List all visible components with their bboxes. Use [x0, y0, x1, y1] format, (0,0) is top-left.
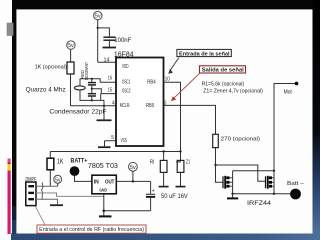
svg-text:10: 10 — [165, 77, 170, 83]
wire rail RB4 R1 Z1 — [50, 151, 180, 153]
ground (crystal) — [97, 119, 112, 121]
svg-text:Condensador 22pF: Condensador 22pF — [49, 109, 106, 116]
capacitor 50uF plate bottom — [146, 196, 155, 198]
svg-text:RI: RI — [150, 160, 155, 166]
pencil marker bar: dark notch — [8, 163, 11, 165]
left black bar — [12, 0, 16, 206]
terminal Mot — [295, 82, 299, 86]
resistor 1K — [47, 158, 54, 170]
svg-text:50 uF 16V: 50 uF 16V — [161, 194, 188, 200]
node Z1 — [179, 150, 181, 152]
svg-text:RB4: RB4 — [147, 80, 156, 86]
connector pin 3 — [28, 198, 34, 200]
top black band — [12, 0, 320, 9]
wire node to C1 — [91, 79, 93, 83]
node VDD tap — [97, 27, 99, 29]
resistor 270 (opcional) — [213, 134, 219, 147]
callout Entrada de la senal — [177, 49, 231, 57]
wire 270 to gate node — [215, 148, 217, 165]
svg-text:MCLR-: MCLR- — [120, 103, 131, 109]
node drain bus — [273, 170, 275, 172]
ground (100nF) — [103, 47, 117, 49]
wire crystal bottom frame — [80, 90, 104, 101]
svg-text:VSS: VSS — [121, 138, 127, 144]
svg-text:4: 4 — [112, 100, 115, 106]
svg-text:5: 5 — [111, 135, 114, 141]
svg-text:100nF: 100nF — [114, 37, 131, 44]
terminal BATT+ — [70, 166, 80, 176]
svg-text:Entrada a el control de RF (ra: Entrada a el control de RF (radio frecue… — [39, 227, 144, 233]
svg-text:RB0: RB0 — [146, 103, 154, 109]
svg-text:BATT+: BATT+ — [71, 159, 88, 165]
svg-text:Z1= Zener 4,7v (opcional): Z1= Zener 4,7v (opcional) — [203, 89, 263, 95]
svg-text:5v: 5v — [55, 177, 61, 183]
arrowhead pin 6 — [171, 96, 176, 101]
right black-to-blue band — [313, 0, 320, 240]
resistor 1K (opcional) — [67, 62, 74, 74]
wire to 100nF — [98, 28, 110, 37]
node source Q1 — [231, 193, 233, 195]
svg-text:1K (opcional): 1K (opcional) — [35, 64, 67, 70]
wire source rail — [233, 193, 293, 195]
arrow to pin 10 — [170, 58, 179, 71]
node source Q2 — [273, 193, 275, 195]
wire 5v to OUT rail — [132, 171, 134, 181]
ground (Z1) — [176, 186, 186, 188]
ground (R1) — [159, 186, 169, 188]
wire mid node to C2 — [91, 89, 93, 94]
wire GND stub down — [103, 211, 105, 216]
ground (connector) — [50, 204, 63, 206]
wire hop squiggle — [42, 183, 43, 200]
wire crystal top to OSC1 frame — [80, 79, 116, 86]
wire pull-up to MCLR — [71, 74, 116, 106]
wire RB4 pin 10 — [164, 82, 181, 151]
svg-text:5v: 5v — [130, 165, 136, 171]
wire jog to pin 15 line — [100, 94, 102, 101]
svg-text:16F84: 16F84 — [114, 50, 134, 59]
wire RB0 pin 6 — [164, 105, 216, 134]
pointer line to RF label — [35, 206, 45, 225]
capacitor C1 22pF — [88, 83, 96, 85]
svg-text:IRFZ44: IRFZ44 — [247, 200, 271, 207]
terminal Batt- — [290, 189, 301, 200]
callout Salida de senal — [200, 66, 246, 74]
svg-text:OSC1: OSC1 — [122, 79, 131, 85]
resistor R1 — [160, 160, 167, 172]
wire GND rail to cap — [104, 210, 151, 212]
gray tab on left bar — [7, 23, 13, 36]
svg-text:DMPF: DMPF — [26, 177, 37, 183]
ground (regulator) — [99, 215, 112, 217]
capacitor C2 22pF — [88, 94, 96, 96]
ground (Q1) — [227, 197, 238, 199]
arrowhead pin 10 — [168, 69, 173, 74]
transistor Q1 IRFZ44 — [223, 171, 233, 194]
wire 100nF to ground — [108, 40, 110, 47]
node OUT — [132, 180, 134, 182]
wire VDD stub pin14 — [98, 61, 116, 63]
pencil marker bar: pink tip — [8, 159, 11, 163]
svg-text:15: 15 — [108, 87, 112, 93]
svg-text:Batt –: Batt – — [287, 181, 305, 187]
wire pin2 to regulator gnd — [36, 193, 104, 196]
wire gate rail to mosfet2 — [216, 165, 266, 181]
wire bottom frame to ground — [103, 100, 105, 119]
svg-text:GND: GND — [99, 187, 107, 193]
svg-text:Entrada de la señal: Entrada de la señal — [179, 51, 230, 57]
regulator 7805 T03 — [92, 175, 116, 194]
wire cap to gnd rail — [150, 198, 152, 211]
node OSC1 — [91, 78, 93, 80]
svg-text:14: 14 — [104, 57, 110, 63]
connector pin 2 — [28, 192, 34, 194]
wire mid node to OSC2 pin 15 — [92, 89, 116, 94]
svg-text:OSC2: OSC2 — [122, 88, 131, 94]
wire VDD vertical — [97, 20, 99, 63]
svg-text:IN: IN — [94, 179, 99, 185]
svg-text:Salida de señal: Salida de señal — [202, 68, 244, 74]
wire pin1 to node — [36, 185, 58, 187]
wire gate rail to mosfet1 — [216, 165, 224, 182]
svg-text:Z1: Z1 — [186, 160, 190, 166]
svg-text:R1=5,6k (opcional): R1=5,6k (opcional) — [202, 81, 245, 87]
wire BATT+ to regulator IN — [75, 176, 92, 182]
wire OUT to cap — [150, 181, 152, 193]
5v supply symbol (regulator out) — [129, 162, 138, 171]
wire drain bus — [233, 170, 274, 172]
5v supply symbol (connector) — [54, 175, 62, 183]
wire Mot line — [274, 84, 297, 171]
wire rail to Z1 — [180, 152, 182, 161]
wire 1K down to node — [49, 170, 51, 186]
svg-text:Mot: Mot — [284, 89, 293, 95]
node crystal bottom — [91, 99, 93, 101]
bottom blue band — [11, 234, 320, 240]
wire R1 to ground — [163, 172, 165, 186]
wire pin3 to ground — [36, 199, 58, 204]
pencil marker bar: yellow segment — [8, 164, 11, 171]
ground (VSS) — [98, 146, 111, 148]
wire VSS pin 5 — [105, 141, 116, 147]
wire Z1 to ground — [180, 172, 182, 186]
svg-text:Quarzo 4 Mhz: Quarzo 4 Mhz — [26, 87, 66, 94]
node R1 — [162, 150, 164, 152]
node gate junction — [214, 164, 216, 166]
wire C2 to bottom node — [91, 96, 93, 101]
transistor Q2 IRFZ44 — [266, 171, 275, 194]
svg-text:1K: 1K — [57, 159, 64, 166]
svg-text:RESONANT: RESONANT — [84, 62, 89, 80]
wire Q1 source to ground — [232, 194, 234, 198]
wire C1 to mid node — [91, 85, 93, 89]
svg-text:5v: 5v — [68, 43, 74, 49]
pencil marker bar: magenta body — [8, 171, 11, 235]
wire OUT rail — [116, 180, 150, 182]
wire rail to 1K — [49, 152, 51, 159]
5v supply symbol (left, MCLR pull-up) — [67, 41, 75, 49]
wire 5v to R pull-up — [70, 49, 72, 62]
label RED RESONAT (vertical) — [80, 62, 89, 80]
connector pin 1 — [28, 185, 34, 187]
capacitor 50uF plate top — [146, 193, 155, 195]
svg-text:270 (opcional): 270 (opcional) — [221, 137, 260, 143]
node MCLR crossing — [103, 105, 105, 107]
zener Z1 — [177, 160, 184, 172]
wire rail to R1 — [163, 152, 165, 161]
node OSC2 mid — [91, 88, 93, 90]
svg-text:VDD: VDD — [122, 64, 129, 70]
crystal Quarzo 4 Mhz (oval) — [74, 86, 85, 90]
svg-text:OUT: OUT — [105, 179, 115, 185]
svg-text:7805 T03: 7805 T03 — [88, 163, 118, 170]
wire 5v stub to node — [57, 183, 59, 186]
zener Z1 bar — [176, 161, 181, 163]
wire regulator GND down — [103, 194, 105, 211]
svg-text:6: 6 — [164, 100, 167, 106]
arrow to pin 6 — [172, 73, 200, 100]
svg-text:16: 16 — [108, 75, 112, 81]
capacitor 100nF — [103, 37, 115, 40]
5v supply symbol (top, VDD) — [94, 11, 102, 19]
svg-text:5v: 5v — [95, 14, 101, 20]
node GND rail — [103, 210, 106, 213]
IC U1 PIC 16F84 body — [116, 58, 164, 147]
connector DMPF — [26, 182, 36, 206]
callout Entrada a el control de RF — [37, 225, 146, 233]
